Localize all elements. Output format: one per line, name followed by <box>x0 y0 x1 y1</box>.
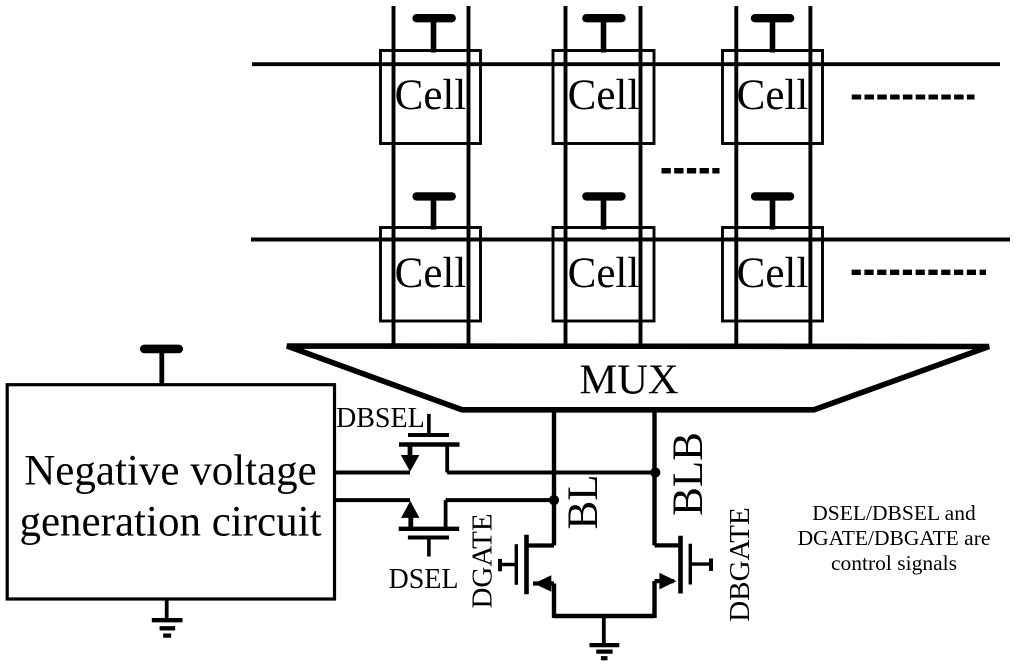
dashed continuation of cell row 1 <box>852 95 975 100</box>
svg-text:MUX: MUX <box>579 357 678 404</box>
memory cell row 1 col 2 <box>553 51 654 144</box>
wire: BL line from MUX <box>552 407 556 546</box>
wire: DSEL drain to BL node <box>446 498 554 502</box>
power supply VDD symbol, cell row 2 col 1 <box>412 192 456 229</box>
wire: bitline BL column 1 <box>392 6 396 347</box>
wire: bitline BLB column 3 <box>808 6 812 347</box>
wire: negative voltage output to DSEL source <box>335 498 410 502</box>
wire: BLB line from MUX <box>652 407 656 545</box>
node: BL junction dot <box>549 495 559 505</box>
ground symbol below DGATE/DBGATE <box>590 616 620 658</box>
wire: word line row 1 <box>252 62 1000 66</box>
memory cell row 1 col 1 <box>381 51 481 144</box>
wire: DBSEL drain to BLB node <box>447 471 655 475</box>
wire: word line row 2 <box>251 238 1010 242</box>
transistor DGATE (NMOS, gate at left) <box>500 535 554 618</box>
svg-text:Cell: Cell <box>395 250 467 297</box>
note: control signals text <box>798 501 991 575</box>
wire: bitline BL column 3 <box>734 6 738 347</box>
memory cell row 1 col 3 <box>723 51 823 144</box>
power supply VDD symbol, cell row 1 col 2 <box>582 14 626 53</box>
svg-text:Cell: Cell <box>395 72 467 119</box>
memory cell row 2 col 2 <box>553 228 654 322</box>
power supply VDD symbol above negative voltage block <box>140 345 183 385</box>
transistor DBSEL (PMOS-style pass device, arrow down) <box>399 414 460 473</box>
wire: negative voltage output to DBSEL source <box>335 471 410 475</box>
svg-text:DGATE: DGATE <box>466 513 498 608</box>
svg-text:BLB: BLB <box>665 432 712 516</box>
transistor DSEL (pass device, arrow up) <box>399 500 460 556</box>
svg-text:DBSEL: DBSEL <box>336 403 425 434</box>
power supply VDD symbol, cell row 2 col 3 <box>751 192 795 229</box>
dashed continuation of cell row 2 <box>852 270 986 275</box>
power supply VDD symbol, cell row 1 col 1 <box>412 14 456 53</box>
power supply VDD symbol, cell row 2 col 2 <box>582 192 626 229</box>
memory cell row 2 col 1 <box>381 228 481 322</box>
svg-text:Negative voltage: Negative voltage <box>24 448 317 495</box>
svg-text:Cell: Cell <box>737 250 809 297</box>
svg-text:Cell: Cell <box>737 72 809 119</box>
node: BLB junction dot <box>650 467 660 477</box>
wire: bitline BLB column 2 <box>639 6 643 347</box>
svg-text:Cell: Cell <box>568 250 640 297</box>
ground symbol below negative voltage block <box>152 599 183 636</box>
svg-text:DSEL: DSEL <box>389 564 459 595</box>
transistor DBGATE (NMOS, gate at right) <box>655 536 712 618</box>
memory cell row 2 col 3 <box>723 228 823 322</box>
wire: common source rail DGATE-DBGATE <box>554 614 655 618</box>
negative voltage generation circuit block <box>7 385 334 599</box>
svg-text:BL: BL <box>560 475 607 530</box>
svg-text:DBGATE: DBGATE <box>724 507 756 621</box>
svg-text:control signals: control signals <box>831 551 957 575</box>
power supply VDD symbol, cell row 1 col 3 <box>751 14 795 53</box>
svg-text:DGATE/DBGATE are: DGATE/DBGATE are <box>798 526 991 550</box>
wire: bitline BL column 2 <box>564 6 568 347</box>
column MUX (trapezoid) <box>287 346 989 410</box>
wire: bitline BLB column 1 <box>467 6 471 347</box>
svg-text:DSEL/DBSEL and: DSEL/DBSEL and <box>812 501 976 525</box>
svg-text:Cell: Cell <box>568 72 640 119</box>
svg-text:generation circuit: generation circuit <box>19 499 321 546</box>
dashed continuation between rows <box>662 168 720 174</box>
